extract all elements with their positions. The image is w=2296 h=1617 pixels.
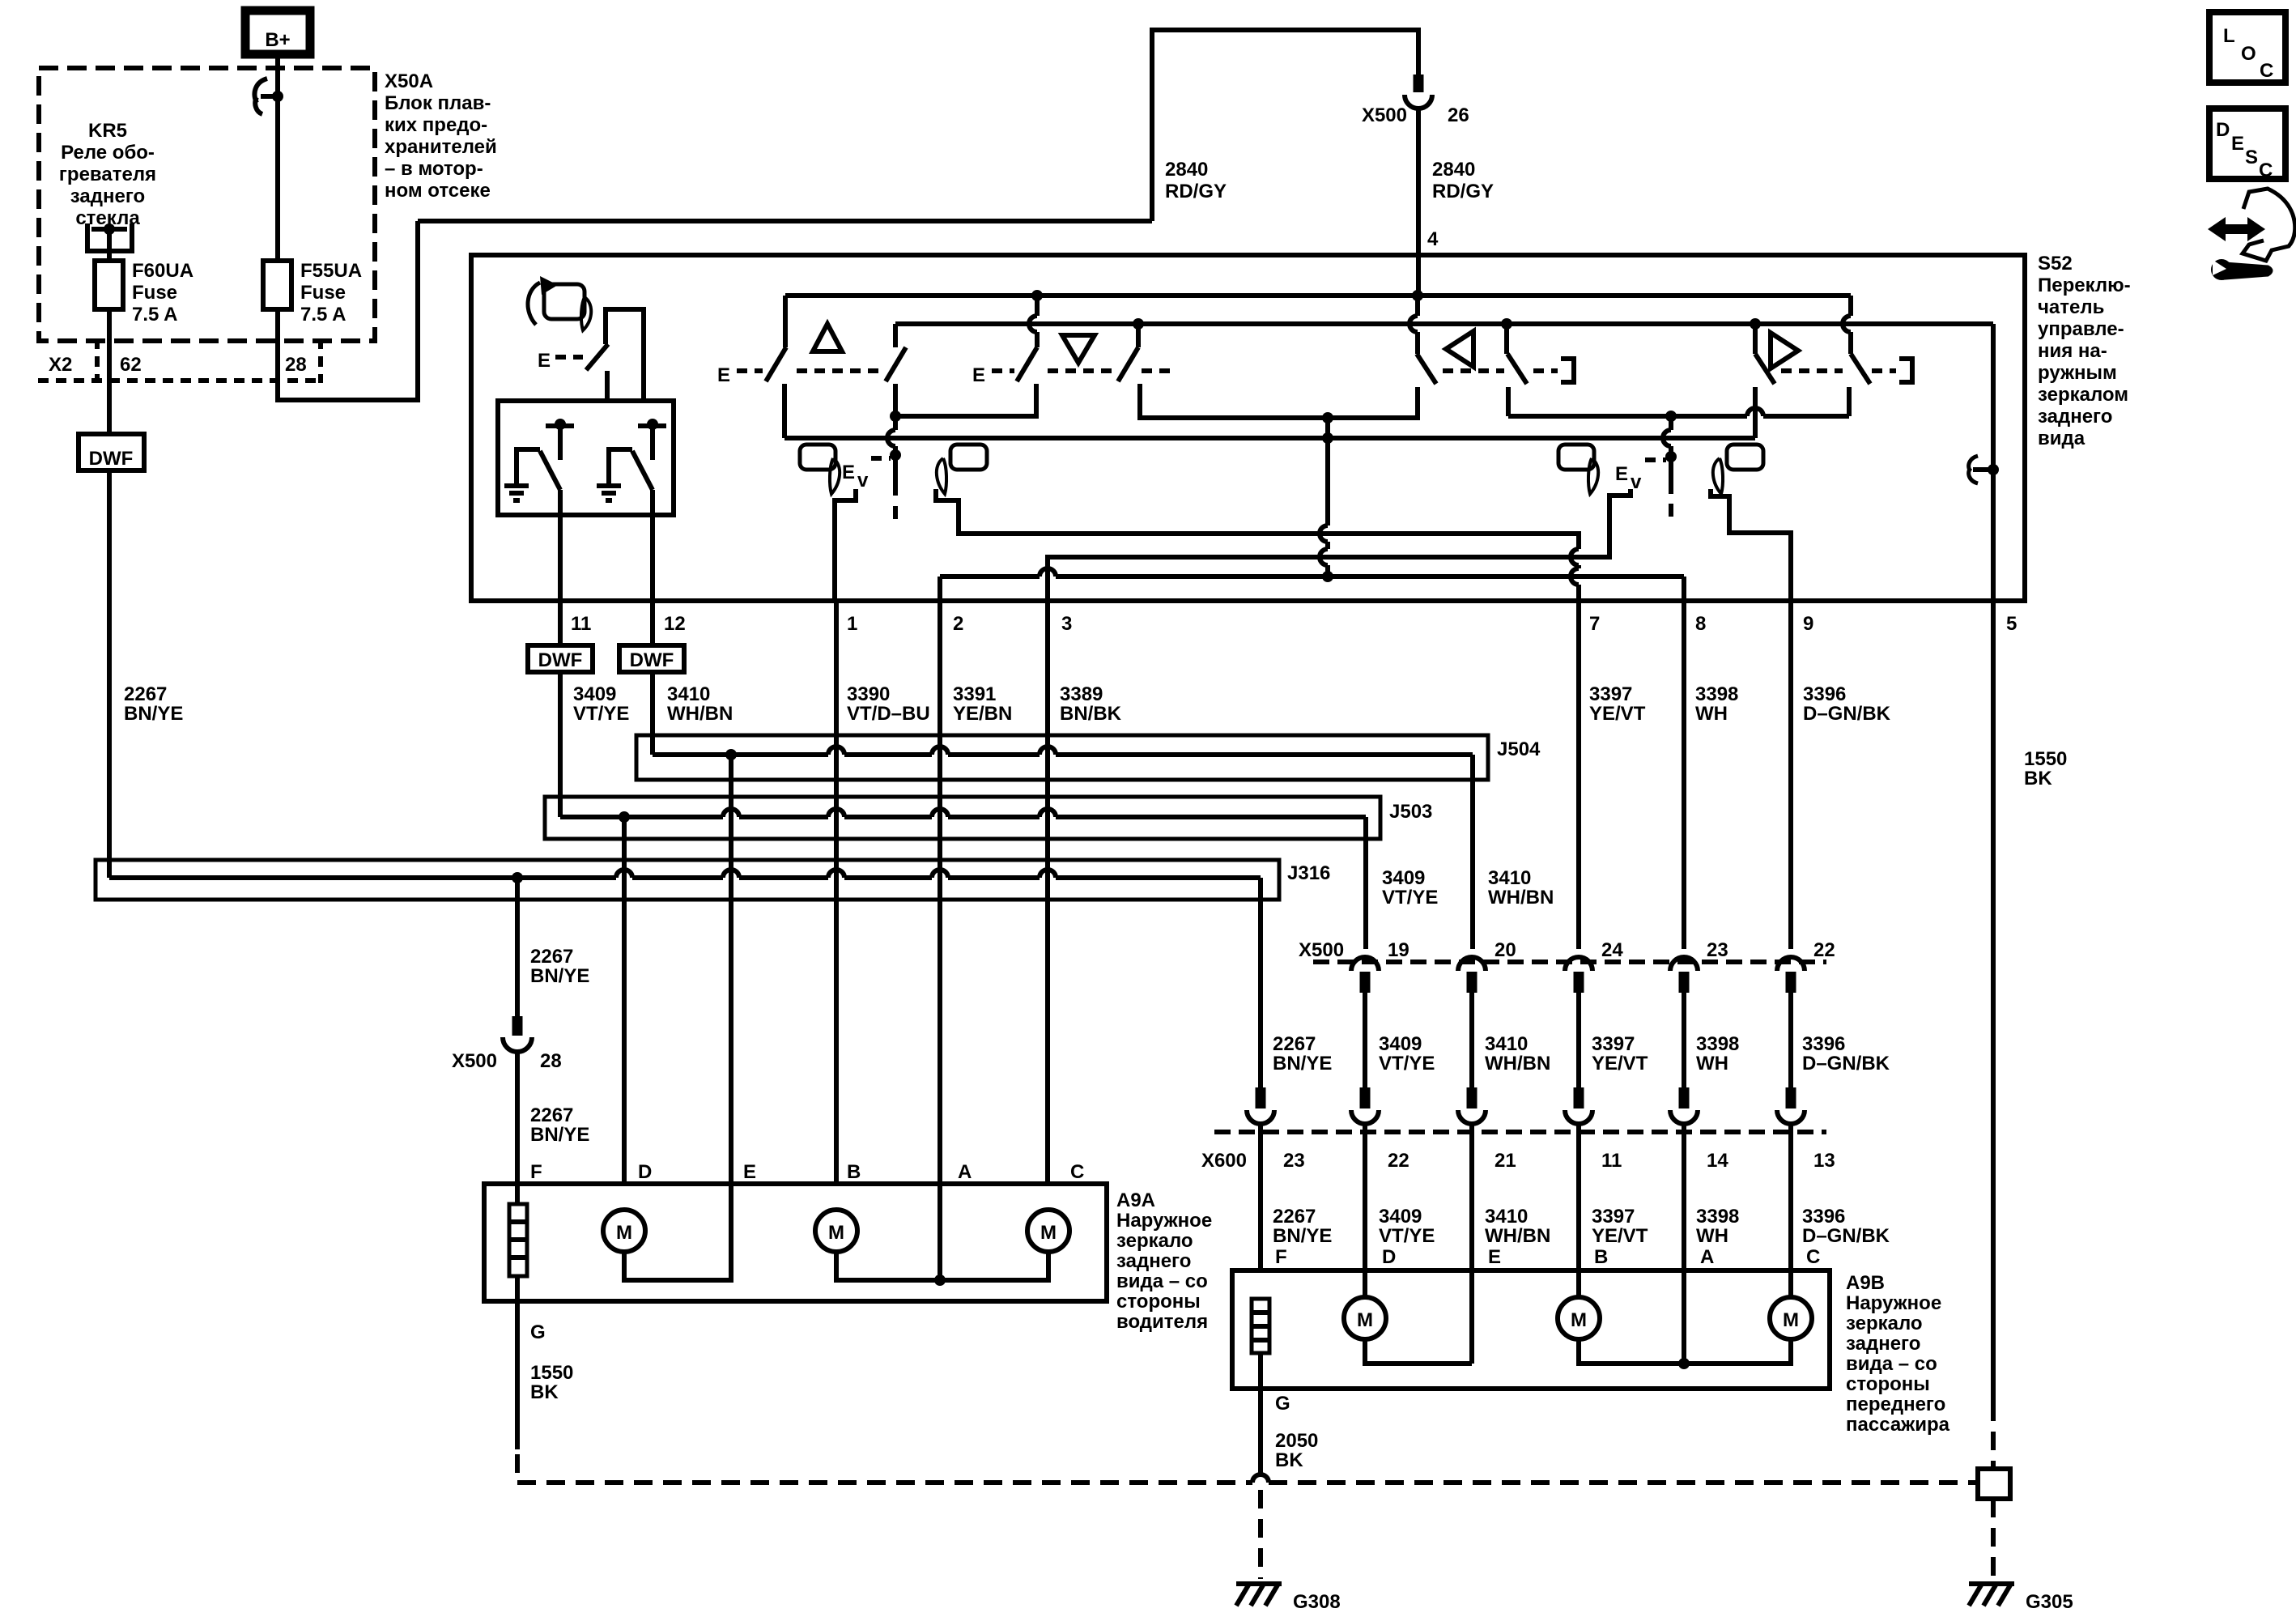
svg-text:F55UA: F55UA: [300, 260, 362, 282]
svg-text:23: 23: [1283, 1150, 1305, 1172]
label wire 1550 BK at A9A G: [530, 1362, 573, 1403]
pin letter E A9B: [1488, 1246, 1501, 1268]
component DWF box pin 11: [528, 645, 593, 672]
pin label 23 X500: [1707, 939, 1728, 961]
wire 3410 J504 drop to A9A: [729, 755, 733, 1184]
svg-text:WH/BN: WH/BN: [1485, 1225, 1550, 1247]
wire 3391 pin 2 down to A9A: [938, 601, 942, 1184]
svg-text:3397: 3397: [1592, 1206, 1635, 1228]
pin letter G A9A: [530, 1321, 546, 1343]
label wire 2267 BN/YE below X500-28: [530, 1104, 589, 1146]
up switch blade 2: [886, 347, 906, 381]
connector X600 pin 14 terminal: [1670, 1087, 1698, 1124]
svg-text:11: 11: [1601, 1150, 1622, 1172]
up switch lower terminal 2: [893, 384, 898, 416]
label wire 2267 BN/YE above X500-28: [530, 946, 589, 987]
wire 2840 from X500-26 down to S52 pin 4: [1416, 109, 1421, 296]
label wire 1550 BK: [2024, 748, 2067, 789]
svg-text:4: 4: [1427, 228, 1439, 250]
svg-text:ружным: ружным: [2038, 362, 2117, 384]
svg-text:2267: 2267: [530, 946, 573, 968]
svg-text:X600: X600: [1201, 1150, 1247, 1172]
label wire 3398 WH low: [1696, 1206, 1739, 1247]
wire motor M1 to E wire A9A: [624, 1184, 731, 1280]
pin letter B A9B: [1594, 1246, 1608, 1268]
svg-text:M: M: [1571, 1309, 1587, 1331]
svg-text:M: M: [1783, 1309, 1799, 1331]
pin letter A A9A: [958, 1161, 972, 1183]
svg-text:VT/YE: VT/YE: [1382, 887, 1438, 908]
label wire 3396 D-GN/BK mid: [1802, 1033, 1890, 1074]
wire driver mirror common with hop over bus 3: [887, 416, 895, 496]
svg-text:J503: J503: [1389, 801, 1432, 823]
svg-text:O: O: [2241, 43, 2256, 65]
svg-text:YE/BN: YE/BN: [953, 703, 1012, 725]
svg-text:M: M: [1357, 1309, 1373, 1331]
pin label 8: [1695, 613, 1706, 635]
svg-text:A9A: A9A: [1116, 1189, 1155, 1211]
wire from relay node down to fuse F55UA: [275, 96, 280, 261]
junction J503 trough outline: [545, 797, 1380, 839]
left arrow contact 2: [1504, 324, 1509, 354]
ground contact right L: [609, 449, 632, 486]
triangle right mirror symbol: [1771, 333, 1798, 368]
svg-text:A: A: [1700, 1246, 1714, 1268]
pin letter F A9A: [530, 1161, 542, 1183]
svg-text:YE/VT: YE/VT: [1592, 1225, 1648, 1247]
wire pin 11 from blade down: [558, 490, 563, 601]
svg-text:3390: 3390: [847, 683, 890, 705]
svg-text:F: F: [1275, 1246, 1287, 1268]
label wire 3410 WH/BN mid: [1485, 1033, 1550, 1074]
component DWF box left column: [79, 434, 144, 470]
motor M2 A9A: [815, 1210, 857, 1252]
left arrow blade 2: [1507, 354, 1527, 384]
svg-text:3410: 3410: [667, 683, 710, 705]
wire 3410 X500-20 to X600-21: [1469, 993, 1474, 1087]
svg-text:3389: 3389: [1060, 683, 1103, 705]
svg-text:ном отсеке: ном отсеке: [385, 180, 491, 202]
dashed actuation line right arrow: [1781, 368, 1896, 373]
wire 3398 pin8 down to X500-23: [1682, 601, 1686, 949]
label wire 3398 WH mid: [1696, 1033, 1739, 1074]
down switch contact 2 from bus 2: [1136, 324, 1141, 347]
open contact dash driver: [893, 506, 898, 519]
svg-text:BK: BK: [2024, 768, 2052, 789]
pin label 9: [1803, 613, 1813, 635]
pin label 28: [540, 1050, 562, 1072]
link to left arrow switch blade 1 lower: [1328, 387, 1418, 418]
wire passenger mirror common with hop over bus 3: [1663, 416, 1671, 494]
pin label 23 X600: [1283, 1150, 1305, 1172]
triangle up mirror symbol: [813, 324, 842, 351]
svg-text:ния на-: ния на-: [2038, 340, 2107, 362]
svg-text:D–GN/BK: D–GN/BK: [1803, 703, 1891, 725]
svg-text:вида – со: вида – со: [1116, 1270, 1208, 1292]
label wire 2050 BK: [1275, 1430, 1318, 1471]
right arrow contact 2 from bus 1 with hop: [1843, 296, 1851, 354]
svg-text:3409: 3409: [573, 683, 616, 705]
svg-text:D: D: [2216, 119, 2230, 141]
right arrow lower terminal 2 corner: [1847, 387, 1852, 416]
connector X600 pin 21 terminal: [1458, 1087, 1486, 1124]
pin label 24 X500: [1601, 939, 1623, 961]
wire driver right mirror to pin 7: [936, 489, 1579, 601]
svg-text:– в мотор-: – в мотор-: [385, 158, 483, 180]
contact T-bar left with dot: [546, 419, 574, 460]
dashed actuation line up switch: [737, 368, 881, 373]
svg-text:E: E: [842, 462, 855, 483]
connector X600 pin 23 terminal: [1247, 1087, 1274, 1124]
link up switch to down switch lower: [895, 384, 1036, 416]
pin label 19 X500: [1388, 939, 1409, 961]
svg-text:9: 9: [1803, 613, 1813, 635]
svg-text:3409: 3409: [1379, 1033, 1422, 1055]
triangle left mirror symbol: [1446, 331, 1473, 367]
label wire 3390 VT/D-BU: [847, 683, 930, 725]
label J316: [1287, 862, 1330, 884]
svg-text:2840: 2840: [1432, 159, 1475, 181]
wire passenger right mirror to pin 9: [1711, 489, 1791, 601]
triangle down mirror symbol: [1062, 335, 1095, 363]
wire 3409 DWF to J503: [558, 672, 563, 817]
bus wire 2 inside S52: [895, 321, 1993, 326]
icon passenger right mirror: [1713, 445, 1763, 494]
node dot pin 5: [1988, 464, 1999, 475]
svg-text:26: 26: [1448, 104, 1469, 126]
svg-text:управле-: управле-: [2038, 318, 2124, 340]
wire F inside A9A: [515, 1184, 520, 1301]
node dot right arrow blade 1 on bus 2: [1750, 318, 1761, 330]
svg-text:E: E: [2231, 133, 2244, 155]
svg-text:зеркало: зеркало: [1116, 1230, 1193, 1252]
icon driver left mirror: [800, 445, 840, 494]
right arrow blade 2: [1851, 354, 1870, 384]
svg-text:WH/BN: WH/BN: [667, 703, 733, 725]
svg-text:3410: 3410: [1485, 1206, 1528, 1228]
label wire 3410 WH/BN: [667, 683, 733, 725]
icon arrow hand wrench: [2208, 189, 2295, 280]
label J504: [1497, 738, 1541, 760]
node junction dot on B+ wire: [272, 91, 283, 102]
svg-text:VT/YE: VT/YE: [1379, 1225, 1435, 1247]
connector block inside A9A on F wire: [509, 1204, 527, 1276]
wire 3396 X500-22 to X600-13: [1788, 993, 1793, 1087]
label wire 3409 VT/YE right of J316: [1382, 867, 1438, 908]
pin label 20 X500: [1495, 939, 1516, 961]
node dot J316: [512, 872, 523, 883]
dashed wire G A9A to ground line: [515, 1454, 520, 1483]
wire A X600-14 to A9B: [1682, 1125, 1686, 1364]
connector X500 pin 28 terminal: [503, 1016, 532, 1052]
switch blade to pin 11: [540, 451, 560, 490]
down switch lower terminal 1: [1034, 384, 1039, 416]
svg-text:Fuse: Fuse: [132, 282, 177, 304]
svg-text:G305: G305: [2026, 1591, 2073, 1613]
wire 3409 J503 drop to A9A: [622, 817, 627, 1184]
connector X500 pin 23 terminal: [1670, 957, 1698, 993]
svg-text:Наружное: Наружное: [1846, 1292, 1941, 1314]
svg-text:1550: 1550: [530, 1362, 573, 1384]
svg-text:22: 22: [1813, 939, 1835, 961]
svg-text:3410: 3410: [1485, 1033, 1528, 1055]
left arrow blade 1: [1417, 354, 1436, 384]
wire pin 12 to DWF box: [650, 601, 655, 645]
dashed Ev link passenger: [1645, 457, 1666, 462]
svg-text:2267: 2267: [530, 1104, 573, 1126]
right arrow lower terminal 1 to bus 3: [1753, 387, 1758, 438]
svg-text:E: E: [972, 364, 985, 386]
wire feed horizontal to X500 drop: [418, 219, 1152, 223]
svg-text:L: L: [2223, 25, 2235, 47]
svg-text:3396: 3396: [1802, 1033, 1845, 1055]
pin label 3: [1061, 613, 1072, 635]
svg-text:Реле обо-: Реле обо-: [61, 142, 155, 164]
motor M3 A9A: [1027, 1210, 1069, 1252]
svg-text:WH/BN: WH/BN: [1488, 887, 1554, 908]
svg-text:DWF: DWF: [630, 649, 674, 671]
svg-text:Переклю-: Переклю-: [2038, 274, 2131, 296]
svg-text:BN/YE: BN/YE: [124, 703, 183, 725]
svg-text:хранителей: хранителей: [385, 136, 497, 158]
svg-text:11: 11: [571, 613, 591, 635]
svg-text:C: C: [2260, 60, 2273, 82]
label wire 3397 YE/VT low: [1592, 1206, 1648, 1247]
icon box DESC: [2209, 109, 2285, 181]
node dot down blade 1 on bus 1: [1031, 290, 1043, 301]
terminal hook at pin 5 node: [1969, 456, 1993, 483]
down switch blade 1: [1017, 347, 1037, 381]
svg-text:C: C: [2259, 160, 2273, 181]
switch blade to pin 12: [632, 451, 653, 490]
wire A inside A9A: [938, 1184, 942, 1280]
label F55UA Fuse 7.5 A: [300, 260, 362, 326]
svg-text:2267: 2267: [1273, 1033, 1316, 1055]
label E actuate down switch: [972, 364, 985, 386]
down switch blade 2: [1118, 347, 1138, 381]
connector X500 pin 19 terminal: [1351, 957, 1379, 993]
connector X500 pin 26 terminal: [1405, 74, 1432, 109]
wire from X2-28 right and up to feed line: [278, 221, 418, 400]
svg-text:8: 8: [1695, 613, 1706, 635]
pin label 11: [571, 613, 591, 635]
svg-text:X50A: X50A: [385, 70, 433, 92]
svg-text:YE/VT: YE/VT: [1592, 1053, 1648, 1074]
svg-text:G: G: [1275, 1393, 1290, 1415]
svg-text:вида – со: вида – со: [1846, 1353, 1937, 1375]
down switch lower terminal 2: [1140, 384, 1328, 418]
svg-text:F60UA: F60UA: [132, 260, 193, 282]
node dot passenger Ev: [1665, 451, 1677, 462]
svg-text:5: 5: [2006, 613, 2017, 635]
node dot left arrow blade 2 on bus 2: [1501, 318, 1512, 330]
bracket end right arrow: [1899, 359, 1912, 382]
svg-text:BK: BK: [530, 1381, 559, 1403]
svg-text:RD/GY: RD/GY: [1165, 181, 1227, 202]
svg-text:J316: J316: [1287, 862, 1330, 884]
connector block inside A9B on F wire: [1252, 1299, 1269, 1353]
pin label 2: [953, 613, 963, 635]
svg-text:A: A: [958, 1161, 972, 1183]
label wire 3409 VT/YE: [573, 683, 629, 725]
svg-text:22: 22: [1388, 1150, 1409, 1172]
down switch contact 1 from bus 1 with hop: [1029, 296, 1037, 347]
connector X500 pin 24 terminal: [1565, 957, 1592, 993]
wire 3398 X500-23 to X600-14: [1682, 993, 1686, 1087]
svg-text:21: 21: [1495, 1150, 1516, 1172]
label E actuate up switch: [717, 364, 730, 386]
svg-text:v: v: [857, 470, 869, 491]
junction J504 inner wire: [653, 747, 1473, 949]
dashed wire 1550 to square: [1991, 1402, 1996, 1469]
svg-text:3397: 3397: [1589, 683, 1632, 705]
svg-text:C: C: [1806, 1246, 1820, 1268]
svg-text:VT/D–BU: VT/D–BU: [847, 703, 930, 725]
wire 3397 pin7 down to X500-24: [1576, 601, 1581, 949]
connector X600 pin 11 terminal: [1565, 1087, 1592, 1124]
svg-text:D: D: [1382, 1246, 1396, 1268]
svg-text:DWF: DWF: [89, 448, 134, 470]
wire driver left mirror to pin 1: [835, 489, 856, 601]
svg-text:2050: 2050: [1275, 1430, 1318, 1452]
label wire 3410 WH/BN right of J316: [1488, 867, 1554, 908]
svg-text:S52: S52: [2038, 253, 2073, 274]
dashed wire 2050 to ground G308: [1258, 1490, 1263, 1579]
svg-text:заднего: заднего: [1116, 1250, 1191, 1272]
label Ev driver: [842, 462, 869, 491]
pin label 5: [2006, 613, 2017, 635]
svg-text:7.5 A: 7.5 A: [132, 304, 177, 326]
svg-text:X500: X500: [1362, 104, 1407, 126]
wire B X600-11 to A9B: [1576, 1125, 1581, 1297]
right arrow blade 1: [1755, 354, 1775, 384]
up switch contact 2 from bus 2: [893, 324, 898, 347]
wire 3409 X500-19 to X600-22: [1363, 993, 1367, 1087]
label KR5 relay heater rear window: [59, 120, 156, 229]
component DWF box pin 12: [619, 645, 684, 672]
label wire 3410 WH/BN low: [1485, 1206, 1550, 1247]
svg-text:X2: X2: [49, 354, 72, 376]
svg-text:2: 2: [953, 613, 963, 635]
svg-text:WH: WH: [1695, 703, 1728, 725]
pin label 12: [664, 613, 686, 635]
label A9A description: [1116, 1189, 1212, 1333]
wire pin 2 link across to pin 8: [940, 568, 1684, 601]
node dot select to pin8 link: [1322, 571, 1333, 582]
hop of ground line over 2050 wire: [1252, 1474, 1269, 1483]
svg-text:7.5 A: 7.5 A: [300, 304, 346, 326]
svg-text:M: M: [616, 1222, 632, 1244]
pin label 22 X500: [1813, 939, 1835, 961]
svg-text:Блок плав-: Блок плав-: [385, 92, 491, 114]
label X500 at pin 28: [452, 1050, 497, 1072]
label X500 at pin 26: [1362, 104, 1407, 126]
node dot driver select junction: [1322, 412, 1333, 423]
svg-text:2267: 2267: [124, 683, 167, 705]
label wire 2267 BN/YE left: [124, 683, 183, 725]
wire feed up and along top: [1152, 30, 1418, 221]
svg-text:D: D: [638, 1161, 652, 1183]
svg-text:28: 28: [285, 354, 307, 376]
svg-text:YE/VT: YE/VT: [1589, 703, 1646, 725]
label wire 3409 VT/YE mid: [1379, 1033, 1435, 1074]
passenger select link: [1508, 408, 1849, 416]
node dot up switch common: [890, 411, 901, 422]
label E actuate heater switch: [538, 350, 551, 372]
wire 3396 pin9 down to X500-22: [1788, 601, 1793, 949]
svg-text:D–GN/BK: D–GN/BK: [1802, 1225, 1890, 1247]
svg-text:A9B: A9B: [1846, 1272, 1885, 1294]
label X2: [49, 354, 72, 376]
node dot driver Ev: [890, 449, 901, 461]
node dot down blade 2 on bus 2: [1133, 318, 1144, 330]
svg-text:VT/YE: VT/YE: [1379, 1053, 1435, 1074]
svg-text:24: 24: [1601, 939, 1623, 961]
svg-text:переднего: переднего: [1846, 1394, 1945, 1415]
motor M2 A9B: [1558, 1297, 1600, 1339]
svg-text:E: E: [1615, 463, 1628, 485]
fuse F60UA body: [95, 261, 123, 309]
motor M1 A9B: [1344, 1297, 1386, 1339]
label G308: [1293, 1591, 1341, 1613]
connector X600 pin 22 terminal: [1351, 1087, 1379, 1124]
svg-text:E: E: [717, 364, 730, 386]
svg-text:WH: WH: [1696, 1225, 1728, 1247]
svg-text:WH/BN: WH/BN: [1485, 1053, 1550, 1074]
wire driver select down with hops: [1320, 418, 1333, 577]
svg-text:1: 1: [847, 613, 857, 635]
svg-text:3410: 3410: [1488, 867, 1531, 889]
junction J316 inner wire: [109, 870, 1261, 1087]
svg-text:S: S: [2245, 147, 2258, 168]
label wire 3396 D-GN/BK: [1803, 683, 1891, 725]
motor M1 A9A: [603, 1210, 645, 1252]
pin letter F A9B: [1275, 1246, 1287, 1268]
ground symbol inside box right: [597, 486, 621, 500]
svg-text:3396: 3396: [1803, 683, 1846, 705]
svg-text:3398: 3398: [1696, 1033, 1739, 1055]
svg-text:28: 28: [540, 1050, 562, 1072]
power symbol B+ battery terminal box: [245, 11, 310, 54]
svg-text:пассажира: пассажира: [1846, 1414, 1950, 1436]
up switch blade 1: [766, 347, 786, 381]
svg-text:G: G: [530, 1321, 546, 1343]
label wire 3391 YE/BN: [953, 683, 1012, 725]
pin label 28: [285, 354, 307, 376]
svg-text:19: 19: [1388, 939, 1409, 961]
svg-text:B: B: [1594, 1246, 1608, 1268]
node dot A link A9A: [934, 1274, 946, 1286]
svg-text:1550: 1550: [2024, 748, 2067, 770]
pin letter B A9A: [847, 1161, 861, 1183]
svg-text:заднего: заднего: [1846, 1333, 1920, 1355]
wire E X600-21 to A9B: [1469, 1125, 1474, 1364]
label G305: [2026, 1591, 2073, 1613]
svg-text:3409: 3409: [1379, 1206, 1422, 1228]
svg-text:VT/YE: VT/YE: [573, 703, 629, 725]
pin letter C A9B: [1806, 1246, 1820, 1268]
svg-text:заднего: заднего: [70, 185, 145, 207]
svg-text:23: 23: [1707, 939, 1728, 961]
wire 2267 DWF to J316: [107, 470, 112, 878]
label wire 2267 BN/YE mid: [1273, 1033, 1332, 1074]
label A9B description: [1846, 1272, 1950, 1436]
svg-text:M: M: [828, 1222, 844, 1244]
mirror assembly A9B box: [1232, 1270, 1830, 1389]
wire 1550 pin5 down: [1991, 601, 1996, 1402]
connector X600 dashed row: [1214, 1130, 1826, 1134]
node dot passenger Ev top: [1665, 411, 1677, 422]
